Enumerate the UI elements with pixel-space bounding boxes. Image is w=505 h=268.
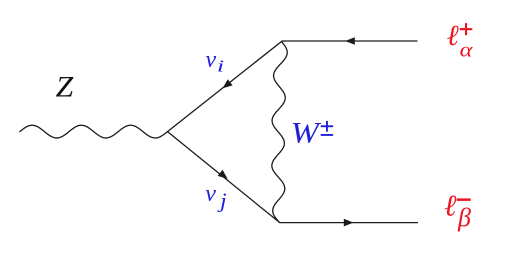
neutrino line nu_i (V1 to V2): [168, 42, 282, 132]
svg-text:j: j: [217, 189, 227, 213]
minus superscript: [457, 198, 471, 201]
svg-text:ν: ν: [205, 181, 216, 207]
svg-text:Z: Z: [56, 71, 74, 104]
Z boson wavy propagator: [20, 125, 168, 138]
label plus-minus superscript (drawn as rects): [321, 121, 333, 136]
arrow on l_alpha+ line (pointing left): [345, 37, 355, 45]
svg-text:β: β: [457, 203, 471, 232]
svg-text:ℓ: ℓ: [444, 190, 457, 223]
arrow on nu_j line: [218, 170, 228, 179]
svg-text:ℓ: ℓ: [447, 20, 459, 52]
W boson wavy propagator: [272, 42, 287, 223]
neutrino line nu_j (V1 to V3): [168, 132, 280, 223]
svg-text:W: W: [291, 117, 323, 150]
lepton line l_alpha+ (top right): [282, 40, 418, 42]
svg-text:α: α: [460, 39, 474, 61]
arrow on l_beta- line (pointing right): [344, 219, 354, 227]
lepton line l_beta- (bottom right): [279, 222, 418, 224]
arrow on nu_i line: [223, 79, 233, 88]
svg-text:i: i: [217, 56, 224, 75]
svg-text:ν: ν: [206, 47, 217, 73]
